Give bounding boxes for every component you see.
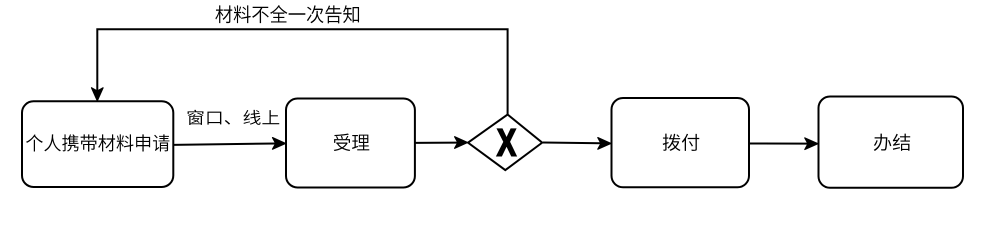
wire 个人携带材料申请 → 受理 — [173, 144, 276, 145]
task box 个人携带材料申请 — [22, 101, 173, 187]
wire gateway → 拨付 — [543, 142, 601, 145]
label 受理 — [334, 134, 370, 151]
wire 受理 → gateway — [415, 142, 458, 144]
label 个人携带材料申请 — [26, 134, 169, 151]
task box 办结 — [819, 97, 964, 188]
label 拨付 — [663, 134, 700, 151]
wire 拨付 → 办结 — [749, 143, 808, 145]
task box 拨付 — [612, 98, 750, 187]
arrowhead into 受理 — [273, 138, 286, 150]
label 材料不全一次告知 — [215, 5, 359, 23]
arrowhead into gateway — [455, 137, 468, 149]
arrowhead into 拨付 — [598, 138, 611, 150]
arrowhead into 办结 — [805, 138, 818, 150]
task box 受理 — [286, 99, 415, 188]
label 办结 — [874, 134, 910, 151]
gateway marker X — [497, 129, 516, 155]
exclusive gateway (diamond) — [468, 115, 542, 171]
arrowhead into 个人携带材料申请 (down) — [92, 88, 104, 101]
label 窗口、线上 — [188, 110, 280, 125]
wire feedback: gateway top up-left to first box (材料不全一次告知) — [97, 29, 507, 114]
